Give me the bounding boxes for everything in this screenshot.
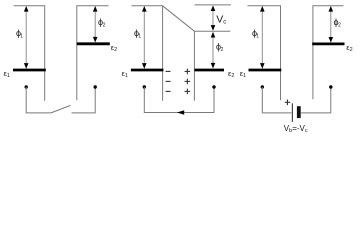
arrowhead down Vc (panel b) (211, 25, 216, 31)
Fermi level line ε1 (panel a) (13, 69, 46, 72)
wire: left terminal down and along bottom (panel a) (26, 87, 51, 113)
arrowhead up φ2 (panel c) (329, 6, 334, 12)
svg-text:2: 2 (338, 23, 341, 29)
work-function arrow φ1 shaft (panel c) (261, 10, 263, 66)
arrowhead down φ1 (panel b) (142, 63, 147, 69)
electrode 1 outline (panel a left): vacuum level + plate face (14, 6, 45, 101)
Fermi level line ε1 (panel c) (249, 69, 282, 72)
arrowhead down φ2 (panel c) (329, 37, 334, 43)
svg-text:1: 1 (138, 33, 141, 39)
battery plus polarity sign (panel c) (285, 100, 291, 106)
wire: bottom right up to right terminal (panel a) (72, 87, 96, 113)
work-function arrow φ1 shaft (panel a) (25, 10, 27, 66)
node dot right terminal (panel c) (329, 85, 332, 88)
node dot right terminal (panel b) (212, 85, 215, 88)
vacuum level slope in gap (panel b) (163, 6, 195, 31)
work-function arrow φ1 shaft (panel b) (143, 10, 145, 66)
electron flow arrowhead on wire (panel b) (177, 110, 184, 115)
node dot right terminal (panel a) (94, 85, 97, 88)
wire: battery to right terminal (panel c) (301, 87, 331, 113)
work-function arrow φ2 shaft (panel b) (212, 35, 214, 66)
Fermi level line ε2 (panel a) (77, 42, 110, 45)
electrode 2 outline (panel a right): plate face + vacuum level (77, 6, 109, 100)
arrowhead up φ2 (panel a) (93, 6, 98, 12)
arrowhead up φ2 (panel b) (211, 32, 216, 38)
negative surface charge signs (panel b) (166, 71, 171, 91)
svg-text:2: 2 (221, 47, 224, 53)
node dot left terminal (panel b) (143, 85, 146, 88)
arrowhead up Vc (panel b) (211, 5, 216, 11)
Fermi level line ε2 (panel c) (312, 43, 344, 46)
svg-text:1: 1 (256, 33, 259, 39)
vacuum reference line (panel b) (195, 4, 231, 6)
Fermi level line ε1 (panel b) (131, 69, 164, 72)
arrowhead down φ1 (panel c) (260, 63, 265, 69)
arrowhead down φ2 (panel a) (93, 37, 98, 43)
arrowhead down φ1 (panel a) (24, 63, 29, 69)
svg-text:1: 1 (20, 33, 23, 39)
wire: connecting loop (panel b) (144, 87, 214, 113)
battery Vb negative plate (short thick) (panel c) (297, 106, 301, 118)
electrode 2 outline (panel c right): plate face + vacuum level (313, 6, 344, 100)
battery Vb positive plate (long) (panel c) (291, 103, 293, 122)
node dot left terminal (panel c) (261, 85, 264, 88)
work-function arrow φ2 shaft (panel a) (94, 10, 96, 41)
electrode 1 outline (panel b left): vacuum level + plate face (132, 6, 163, 101)
svg-text:Vb=-Vc: Vb=-Vc (284, 124, 308, 134)
arrowhead up φ1 (panel c) (260, 6, 265, 12)
arrowhead down φ2 (panel b) (211, 63, 216, 69)
wire: left terminal to battery (panel c) (262, 87, 291, 113)
electrode 1 outline (panel c left): vacuum level + plate face (248, 6, 281, 100)
work-function arrow φ2 shaft (panel c) (330, 10, 332, 41)
arrowhead up φ1 (panel b) (142, 6, 147, 12)
contact potential arrow Vc shaft (panel b) (212, 9, 214, 28)
electrode 2 outline (panel b right): plate face + lowered vacuum level (194, 31, 230, 101)
arrowhead up φ1 (panel a) (24, 6, 29, 12)
positive surface charge signs (panel b) (185, 69, 191, 95)
node dot left terminal (panel a) (25, 85, 28, 88)
Fermi level line ε2 (panel b) (195, 69, 225, 72)
switch S (open) blade (panel a) (51, 105, 71, 113)
svg-text:2: 2 (103, 23, 106, 29)
